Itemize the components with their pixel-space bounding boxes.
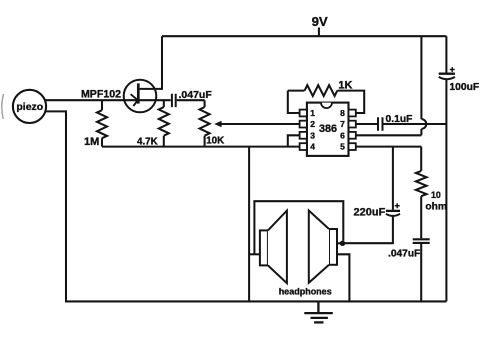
- wire: 220uF to speaker junction: [343, 216, 393, 243]
- wire: ground drop to bottom rail: [248, 147, 250, 302]
- resistor R 10 ohm: [420, 147, 422, 171]
- capacitor C 0.1uF: [378, 117, 383, 131]
- speaker left driver: [260, 230, 268, 265]
- wire: output drop to 220uF: [392, 147, 394, 210]
- pin 4: [300, 143, 307, 150]
- pin 8: [349, 110, 356, 117]
- wire: bottom ground rail: [65, 300, 446, 302]
- op-amp U1 LM386 body: [307, 103, 349, 156]
- wire: pin 7 to 0.1uF: [356, 123, 377, 125]
- capacitor C 220uF (polarized): [386, 203, 400, 216]
- svg-text:1M: 1M: [84, 136, 99, 148]
- svg-text:.047uF: .047uF: [388, 249, 420, 260]
- wire: ground drop stub to left speaker: [249, 253, 260, 255]
- svg-text:4: 4: [310, 142, 315, 152]
- pin 2: [300, 121, 307, 128]
- svg-text:220uF: 220uF: [354, 206, 386, 218]
- svg-text:2: 2: [310, 119, 315, 129]
- wire: right rail upper (9V to 100uF): [445, 36, 447, 72]
- capacitor .047uF input: [172, 94, 176, 107]
- scan artifact left edge: [2, 94, 4, 119]
- transistor Q1 MPF102: [124, 36, 171, 112]
- wire: pot wiper arrow to pin 2: [217, 123, 300, 125]
- svg-text:piezo: piezo: [16, 101, 43, 113]
- svg-text:ohm: ohm: [425, 202, 447, 213]
- transducer piezo: [13, 90, 46, 123]
- svg-text:100uF: 100uF: [449, 82, 479, 93]
- pin 7: [349, 121, 356, 128]
- svg-text:10: 10: [431, 190, 441, 200]
- svg-text:8: 8: [340, 108, 345, 118]
- node 9V tick: [318, 28, 320, 37]
- pin 5: [349, 143, 356, 150]
- wire: pin 5 output: [356, 146, 421, 148]
- resistor R 1K: [288, 90, 305, 92]
- svg-text:7: 7: [340, 119, 345, 129]
- wire: pin 3 to ground rail: [288, 135, 300, 146]
- wire: left rail (piezo return to ground): [45, 111, 66, 300]
- svg-text:.047uF: .047uF: [179, 89, 213, 101]
- wire: zobel to ground rail: [420, 244, 422, 302]
- wire: 9V feed to pin 6 with hop: [356, 36, 426, 135]
- svg-text:9V: 9V: [312, 14, 328, 29]
- capacitor C 100uF (polarized): [439, 67, 455, 79]
- potentiometer R 10K: [204, 100, 206, 107]
- svg-text:1K: 1K: [338, 80, 352, 92]
- node notch: [321, 103, 332, 109]
- enclosure headphones box: [254, 201, 343, 254]
- ground symbol: [304, 301, 333, 322]
- resistor R 1M: [101, 100, 103, 110]
- svg-text:386: 386: [319, 123, 337, 135]
- pin 6: [349, 132, 356, 139]
- svg-text:0.1uF: 0.1uF: [386, 114, 413, 125]
- wire: resistor bottom rail to pin 4: [102, 146, 300, 148]
- wire: right rail lower (100uF to ground rail): [445, 79, 447, 301]
- speaker right cone: [309, 211, 329, 283]
- svg-text:MPF102: MPF102: [81, 89, 121, 101]
- wire: pin 1 to 1K loop: [288, 91, 300, 113]
- speaker left cone: [268, 211, 287, 284]
- svg-text:6: 6: [340, 130, 345, 140]
- resistor R 4.7K: [163, 100, 165, 107]
- svg-text:5: 5: [340, 142, 345, 152]
- svg-text:10K: 10K: [206, 135, 224, 146]
- wire: right speaker to junction: [337, 242, 343, 244]
- svg-text:headphones: headphones: [279, 287, 332, 297]
- pin 1: [300, 110, 307, 117]
- svg-text:3: 3: [310, 130, 315, 140]
- node junction dot: [340, 241, 345, 246]
- pin 3: [300, 132, 307, 139]
- wire: 9V top rail: [162, 35, 446, 37]
- capacitor C .047uF zobel: [413, 239, 430, 243]
- svg-text:1: 1: [310, 108, 315, 118]
- wire: piezo to gate: [45, 99, 137, 101]
- wire: cap to 10K: [177, 99, 205, 101]
- speaker right driver: [329, 229, 337, 265]
- svg-text:4.7K: 4.7K: [137, 137, 158, 148]
- wire: 0.1uF to right rail: [383, 123, 446, 125]
- wire: right speaker return to ground rail: [337, 254, 349, 301]
